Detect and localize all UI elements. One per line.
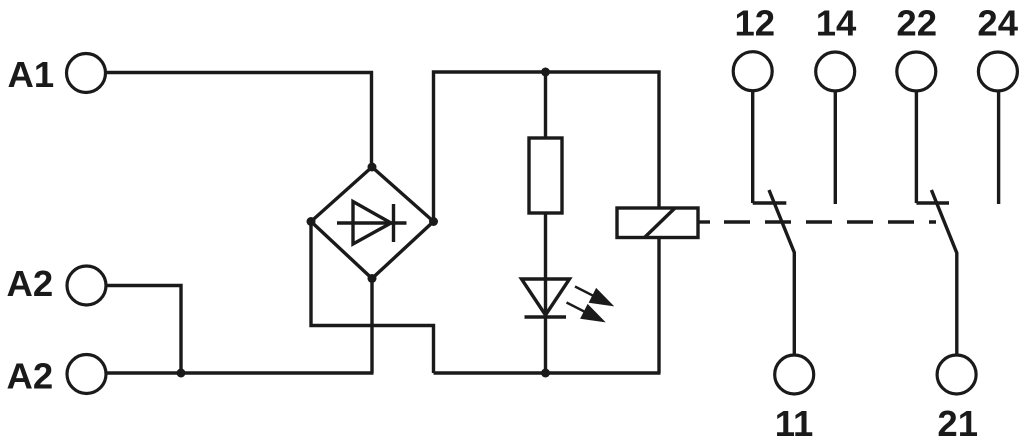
- svg-text:12: 12: [734, 3, 775, 44]
- svg-text:14: 14: [816, 3, 857, 44]
- svg-text:A1: A1: [8, 54, 55, 95]
- svg-text:11: 11: [775, 403, 814, 444]
- svg-text:22: 22: [896, 3, 937, 44]
- svg-text:A2: A2: [7, 356, 54, 397]
- svg-text:A2: A2: [7, 263, 54, 304]
- svg-text:24: 24: [977, 3, 1018, 44]
- svg-text:21: 21: [937, 403, 978, 444]
